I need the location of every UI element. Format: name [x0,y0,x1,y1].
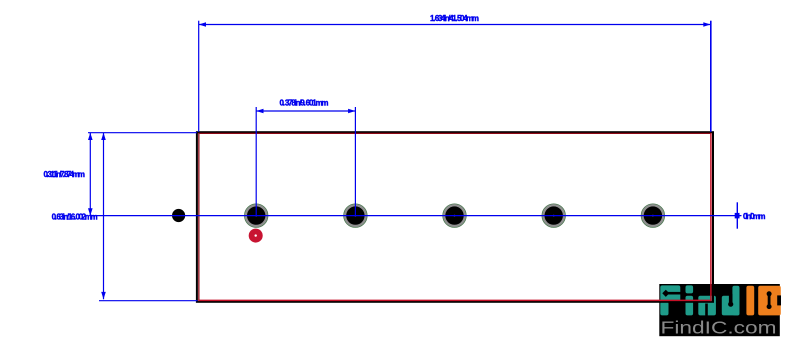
svg-text:0. 378in/9. 601mm: 0. 378in/9. 601mm [280,99,329,108]
dimension label: overall height [52,212,98,221]
pad P3 [443,204,467,228]
dimension: overall width extension line right [710,21,712,132]
logo letter n (teal) [698,296,716,316]
pad P1 [244,204,268,228]
svg-text:0in/0mm: 0in/0mm [743,212,766,221]
component outline (black rectangle) [197,132,713,302]
pad P2 [344,204,368,228]
logo letter C (orange) [758,286,781,316]
dimension label: zero reference [743,212,766,221]
pad P4 [542,204,566,228]
logo text FindIC.com [661,318,777,338]
logo letter F (teal) [660,285,680,315]
FindIC logo box [659,284,780,336]
dimension: overall width line [199,22,711,27]
svg-text:1. 634in/41. 504mm: 1. 634in/41. 504mm [430,14,479,23]
centerline (blue horizontal) [90,215,740,217]
component outline (red courtyard rectangle) [198,133,711,301]
svg-text:0. 311in/7. 874mm: 0. 311in/7. 874mm [44,170,86,179]
dimension: zero reference tick (right) [735,202,742,228]
dimension: top-to-center vertical line [88,133,93,216]
dimension label: overall width [430,14,479,23]
pad P5 [641,204,665,228]
dimension: overall height vertical line [101,133,106,300]
logo letter d (teal) [722,286,740,316]
dimension: pad pitch line [256,109,355,114]
svg-text:0. 63in/16. 002mm: 0. 63in/16. 002mm [52,212,98,221]
svg-text:FindIC.com: FindIC.com [661,318,777,338]
extension line: top edge to left [88,132,197,134]
origin marker (black dot) [172,209,185,222]
dimension: pad pitch extension line right [354,107,356,216]
dimension label: pad pitch [280,99,329,108]
dimension: overall width extension line left [198,21,200,132]
dimension: pad pitch extension line left [255,107,257,216]
extension line: bottom edge to left [99,300,198,302]
dimension label: top-to-center [44,170,86,179]
logo letter I (orange) [746,286,754,316]
logo letter i (teal) [686,285,694,315]
pin-1 marker (red dot) [249,229,263,243]
